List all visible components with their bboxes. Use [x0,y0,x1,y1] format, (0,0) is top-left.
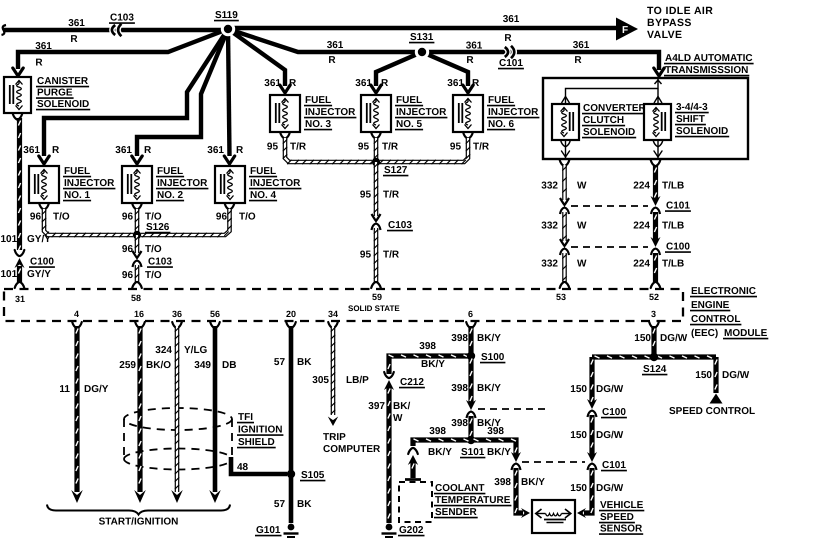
arrow into canister purge solenoid [13,68,23,76]
wire: 361 R from S119 to canister purge solenoid [18,29,228,69]
svg-text:T/R: T/R [473,142,490,153]
label S100 [480,352,505,363]
svg-text:96: 96 [122,270,134,281]
label 361 [115,145,132,156]
svg-text:SOLENOID: SOLENOID [583,127,635,138]
label R [466,55,474,66]
svg-text:CONVERTER: CONVERTER [583,103,647,114]
svg-text:DB: DB [222,360,236,371]
svg-text:DG/W: DG/W [596,430,624,441]
svg-text:101: 101 [1,234,18,245]
label BK/Y [487,447,511,458]
svg-text:F: F [622,25,628,36]
svg-text:INJECTOR: INJECTOR [250,178,301,189]
svg-text:SPEED: SPEED [600,512,634,523]
label S105 [300,470,325,481]
connector prongs at EEC pin 6 [466,322,476,328]
label S124 [642,364,667,375]
svg-text:TRANSMISSSION: TRANSMISSSION [665,65,748,76]
label T/R [383,250,400,261]
wire: 224 T/LB segment 2 [654,212,656,241]
svg-text:FUEL: FUEL [64,166,90,177]
label R [289,78,297,89]
label C100 [665,242,691,253]
svg-text:INJECTOR: INJECTOR [396,107,447,118]
connector C100 break on T/LB wire [651,237,661,255]
label 361 [264,78,281,89]
label 150 [570,483,587,494]
label 101 [1,269,18,280]
wire: 305 LB/P to trip computer [331,326,335,415]
svg-text:(EEC): (EEC) [691,328,718,339]
wire: 96 T/O injector no.1 to S126 [42,209,133,237]
arrow into fuel injector no.2 [132,156,142,164]
label 150 [634,333,651,344]
connector C101 break on DG/W [587,452,597,470]
label COOLANT TEMPERATURE SENDER [434,483,511,518]
arrow to box bottom right [654,151,662,157]
svg-text:SHIELD: SHIELD [238,437,275,448]
label 95 [450,142,462,153]
wire: 398 BK/Y EEC pin 6 to S100 [470,326,472,356]
svg-text:332: 332 [541,259,558,270]
svg-text:95: 95 [450,142,462,153]
label R [574,55,582,66]
fuel injector no.2 symbol [122,166,152,203]
svg-text:FUEL: FUEL [305,95,331,106]
svg-text:398: 398 [419,341,436,352]
wire: 150 DG/W bus from S124 [592,356,716,358]
splice S131 [415,45,429,59]
wire: 398 BK/Y from S100 to C212 [388,355,471,374]
wire: converter clutch solenoid to box bottom [565,140,567,159]
wire: 95 T/R injector no.6 to S127 [379,138,470,164]
svg-text:224: 224 [633,181,650,192]
svg-text:259: 259 [119,360,136,371]
connector prongs at EEC pin 58 [132,282,142,288]
svg-text:C100: C100 [602,407,626,418]
label C101 [665,201,691,212]
canister purge solenoid symbol [4,77,31,113]
svg-text:SOLENOID: SOLENOID [37,99,89,110]
label GY/Y [27,269,51,280]
wire: 361 R from S131 to fuel injector no.6 [422,52,468,86]
arrow start/ignition DB [209,490,221,503]
vehicle speed sensor coil symbol [536,509,571,523]
svg-text:398: 398 [451,333,468,344]
svg-text:NO. 2: NO. 2 [157,190,184,201]
label R [236,145,244,156]
svg-text:C103: C103 [110,13,134,24]
wire: 224 T/LB segment 3 [654,253,656,282]
connector prongs at EEC pin 36 [172,322,182,328]
svg-text:95: 95 [267,142,279,153]
coolant temperature sender dashed box [399,482,432,522]
dashed connector line C100 on BK/Y [478,408,549,410]
svg-text:95: 95 [358,142,370,153]
svg-text:DG/Y: DG/Y [84,384,109,395]
svg-text:4: 4 [74,309,79,319]
vehicle speed sensor box [532,500,575,533]
svg-text:S101: S101 [461,447,485,458]
svg-text:BK/Y: BK/Y [477,333,501,344]
svg-text:R: R [70,34,78,45]
wire end hook at left edge [2,25,7,35]
label FUEL INJECTOR NO. 6 [487,95,539,130]
connector prongs below injector no.3 [280,133,290,139]
label C101 [601,460,627,471]
fuel injector no.3 symbol [270,95,300,132]
dashed connector line C101 [571,205,648,207]
svg-text:T/O: T/O [145,212,162,223]
fuel injector no.5 symbol [361,95,391,132]
svg-text:FUEL: FUEL [396,95,422,106]
svg-text:W: W [577,181,587,192]
label 398 [451,333,468,344]
wire: 398 BK/Y from S100 to C100 [470,356,472,404]
arrow start/ignition DG/Y [71,490,83,503]
label C103 [147,257,173,268]
svg-text:BK: BK [297,499,312,510]
label 361 [573,40,590,51]
svg-text:NO. 6: NO. 6 [488,119,515,130]
svg-text:T/O: T/O [53,212,70,223]
label T/LB [662,221,684,232]
label 398 [494,477,511,488]
wire: shift solenoid to box bottom [657,140,659,159]
svg-text:101: 101 [1,269,18,280]
wire: 398 BK/Y from S101 to C101 [471,439,517,456]
label BK/Y [428,447,452,458]
wire: 361 R from S119 to idle air bypass valve arrow [228,26,617,30]
svg-text:361: 361 [503,14,520,25]
svg-text:COMPUTER: COMPUTER [323,444,381,455]
label ELECTRONIC ENGINE CONTROL (EEC) MODULE [690,286,768,339]
wire: 11 DG/Y to start/ignition [76,326,78,492]
label BK/O [146,360,171,371]
svg-text:SOLID STATE: SOLID STATE [348,304,400,313]
arrow start/ignition Y/LG [171,490,183,503]
label 57 [274,357,286,368]
svg-text:IGNITION: IGNITION [238,425,282,436]
arrow to box bottom left [562,151,570,157]
svg-text:GY/Y: GY/Y [27,269,51,280]
splice S119 [221,22,235,36]
svg-text:DG/W: DG/W [596,483,624,494]
label T/R [473,142,490,153]
svg-text:G202: G202 [399,525,424,536]
label 332 [541,181,558,192]
label DG/W [596,430,624,441]
splice S127 [372,158,380,166]
speed control terminal triangle [710,394,723,404]
svg-text:SENSOR: SENSOR [600,524,643,535]
connector C100 break on BK/Y [466,400,476,418]
3-4/4-3 shift solenoid symbol [644,104,671,140]
label T/O [53,212,70,223]
svg-text:57: 57 [274,499,286,510]
svg-text:361: 361 [35,41,52,52]
svg-text:S105: S105 [301,470,325,481]
svg-text:C103: C103 [388,220,412,231]
dashed connector line C100 [571,246,648,248]
wire: 95 T/R injector no.3 to S127 [283,138,374,164]
svg-text:DG/W: DG/W [722,370,750,381]
wire: 150 DG/W from C100 to C101 [591,415,593,456]
label S126 [145,222,170,233]
label BK/Y [477,383,501,394]
connector C103 break on T/O wire [133,251,142,267]
svg-text:S127: S127 [384,165,408,176]
label T/LB [662,181,684,192]
wire foot bar at sender box top [405,478,421,481]
label 150 [570,384,587,395]
ground G202 [382,524,397,537]
svg-text:BK/Y: BK/Y [487,447,511,458]
label 361 [466,41,483,52]
label R [381,78,389,89]
label 95 [360,190,372,201]
svg-text:34: 34 [328,309,338,319]
svg-text:T/O: T/O [239,212,256,223]
svg-text:305: 305 [312,375,329,386]
label DG/W [596,483,624,494]
label W [393,413,403,424]
label 96 [122,244,134,255]
label R [504,33,512,44]
label 96 [122,212,134,223]
svg-text:52: 52 [649,292,659,302]
arrow into A4LD box [654,68,664,76]
label 361 [503,14,520,25]
svg-text:VALVE: VALVE [647,29,682,41]
label S127 [383,165,408,176]
svg-text:T/R: T/R [382,142,399,153]
label 150 [570,430,587,441]
svg-text:6: 6 [468,309,473,319]
label W [577,181,587,192]
arrow into fuel injector no.6 [463,85,473,93]
label BK/Y [477,418,501,429]
label BK [297,499,312,510]
svg-text:MODULE: MODULE [724,328,768,339]
splice S101 [467,436,475,444]
svg-text:332: 332 [541,181,558,192]
svg-text:T/O: T/O [145,244,162,255]
splice S105 [287,470,295,478]
label 398 [487,426,504,437]
wire: 349 DB to start/ignition [213,326,218,492]
arrow into fuel injector no.4 [224,156,234,164]
svg-text:NO. 5: NO. 5 [396,119,423,130]
label 361 [68,18,85,29]
svg-text:58: 58 [131,293,141,303]
svg-text:397: 397 [368,401,385,412]
connector prongs below A4LD right [651,160,661,166]
svg-text:G101: G101 [256,525,281,536]
label T/R [382,142,399,153]
svg-text:361: 361 [23,145,40,156]
label 224 [633,181,650,192]
label 398 [451,418,468,429]
connector C100 break on GY/Y wire [15,250,25,268]
label 95 [358,142,370,153]
svg-text:398: 398 [494,477,511,488]
svg-text:349: 349 [194,360,211,371]
svg-text:R: R [574,55,582,66]
label FUEL INJECTOR NO. 5 [395,95,447,130]
wire: 398 BK/Y into coolant temperature sender [412,461,414,478]
label T/O [239,212,256,223]
label R [35,58,43,69]
arrow to trip computer [328,417,338,427]
svg-text:361: 361 [68,18,85,29]
svg-text:R: R [289,78,297,89]
splice S124 [650,353,658,361]
label SPEED CONTROL [669,406,755,417]
label 324 [155,345,172,356]
wire: 259 BK/O to start/ignition [139,326,141,492]
svg-text:96: 96 [216,212,228,223]
svg-text:150: 150 [634,333,651,344]
wire: 96 T/O from S126 to C103 [135,235,139,253]
label 48 [237,462,249,473]
label 96 [122,270,134,281]
wire: 361 R from S119 to fuel injector no.2 [137,29,228,156]
connector prongs at EEC pin 3 [649,322,659,328]
connector prongs below injector no.1 [39,204,49,210]
svg-text:T/R: T/R [383,190,400,201]
wire: internal link shift solenoid [654,89,662,105]
pin numbers top row [15,292,659,304]
wire: 150 DG/W to speed control [715,357,717,393]
connector C103 break on T/R wire [372,214,381,230]
start/ignition brace [47,505,230,515]
svg-text:R: R [466,55,474,66]
svg-text:BK/Y: BK/Y [421,359,445,370]
svg-text:TRIP: TRIP [323,432,346,443]
wire: 332 W segment 2 [562,212,566,241]
connector prongs at EEC pin 52 [651,282,661,288]
svg-text:16: 16 [134,309,144,319]
arrow up to coolant temperature sender [408,455,418,465]
label BK/ [393,401,410,412]
wire: 324 Y/LG to start/ignition [175,326,179,492]
connector prongs below injector no.2 [132,204,142,210]
wire: 398 BK/Y from C101 to vehicle speed sensor [515,468,523,513]
svg-text:398: 398 [451,383,468,394]
svg-text:57: 57 [274,357,286,368]
label 361 [207,145,224,156]
arrow into fuel injector no.3 [280,85,290,93]
svg-text:R: R [35,58,43,69]
svg-text:T/LB: T/LB [662,181,684,192]
arrow into fuel injector no.1 [39,156,49,164]
label BK/Y [421,359,445,370]
svg-text:C101: C101 [666,201,690,212]
svg-text:BK/: BK/ [393,401,410,412]
svg-text:96: 96 [122,244,134,255]
connector prongs on sender branch [408,448,418,454]
svg-text:C101: C101 [499,58,523,69]
label TRIP COMPUTER [323,432,381,455]
label 96 [216,212,228,223]
converter clutch solenoid symbol [552,104,579,140]
wire: 224 T/LB segment 1 [654,165,656,200]
wire: 332 W segment 1 [562,165,566,200]
label W [577,221,587,232]
label T/R [383,190,400,201]
svg-text:SPEED CONTROL: SPEED CONTROL [669,406,755,417]
label C103 [109,13,135,24]
wire: 361 R from S119 to splice S131 [228,29,422,52]
svg-text:95: 95 [360,250,372,261]
label DG/Y [84,384,109,395]
splice S100 [467,352,475,360]
label R [328,55,336,66]
splice S126 [133,231,141,239]
svg-text:59: 59 [372,292,382,302]
label 101 [1,234,18,245]
svg-text:R: R [144,145,152,156]
svg-text:LB/P: LB/P [346,375,369,386]
connector prongs below canister purge solenoid [13,114,23,120]
wire: internal link converter clutch solenoid [562,78,662,104]
arrow start/ignition BK/O [134,490,146,503]
connector C101 inline chevrons [505,46,515,58]
svg-text:FUEL: FUEL [250,166,276,177]
connector C101 break on BK/Y [511,452,521,470]
svg-text:150: 150 [570,430,587,441]
fuel injector no.1 symbol [29,166,59,203]
label 150 [695,370,712,381]
wire: 150 DG/W from C101 to vehicle speed sensor [584,468,593,513]
connector C212 break [384,372,394,390]
svg-text:BK/Y: BK/Y [477,383,501,394]
svg-text:Y/LG: Y/LG [184,345,208,356]
connector prongs below injector no.6 [463,133,473,139]
label S101 [460,447,485,458]
wire: 95 T/R from S127 to C103 [374,162,378,216]
label C101 [498,58,524,69]
svg-text:56: 56 [210,309,220,319]
label G202 [398,525,425,536]
svg-text:C212: C212 [400,377,424,388]
svg-text:FUEL: FUEL [488,95,514,106]
svg-text:TO IDLE AIR: TO IDLE AIR [647,5,713,17]
svg-text:START/IGNITION: START/IGNITION [99,517,179,528]
svg-text:361: 361 [355,78,372,89]
wire: 96 T/O injector no.2 to S126 [135,209,139,235]
svg-text:36: 36 [172,309,182,319]
svg-text:361: 361 [264,78,281,89]
svg-text:C101: C101 [602,460,626,471]
svg-text:T/R: T/R [383,250,400,261]
pin numbers bottom row [74,309,656,319]
label DG/W [722,370,750,381]
label GY/Y [27,234,51,245]
svg-text:3: 3 [651,309,656,319]
label W [577,259,587,270]
svg-text:361: 361 [447,78,464,89]
svg-text:361: 361 [573,40,590,51]
wire: 57 BK from EEC pin 20 to G101 [289,326,294,523]
label CANISTER PURGE SOLENOID [36,76,90,110]
label 224 [633,259,650,270]
svg-text:SHIFT: SHIFT [676,114,705,125]
connector prongs at EEC pin 53 [560,282,570,288]
fuel injector no.4 symbol [215,166,245,203]
